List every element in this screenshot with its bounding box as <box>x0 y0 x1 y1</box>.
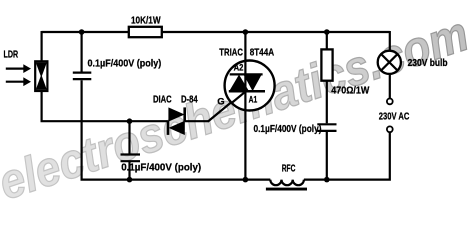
junction dot top rail / C1 <box>79 29 85 35</box>
svg-text:G: G <box>217 96 224 107</box>
svg-text:LDR: LDR <box>4 50 19 61</box>
svg-text:230V AC: 230V AC <box>379 112 410 123</box>
lamp 230V bulb <box>378 51 401 74</box>
wire diac to gate diagonal <box>185 120 209 122</box>
svg-text:0.1µF/400V (poly): 0.1µF/400V (poly) <box>121 163 201 174</box>
terminal lower 230V AC <box>387 126 393 132</box>
wire bulb branch vertical <box>389 31 391 51</box>
svg-text:D-84: D-84 <box>181 95 198 106</box>
capacitor C1 plates 0.1uF/400V <box>73 73 92 80</box>
wire triac A1 lead <box>244 110 246 180</box>
wire bottom rail right of RFC <box>304 179 327 181</box>
wire bulb to terminal <box>389 74 391 99</box>
wire LDR branch left vertical top <box>40 31 42 62</box>
capacitor C3 plates 0.1uF/400V <box>317 124 336 131</box>
svg-text:0.1µF/400V (poly): 0.1µF/400V (poly) <box>254 124 322 135</box>
triac left triangle <box>229 75 249 91</box>
junction dot triac bottom <box>243 177 249 183</box>
triac top bar A2 <box>230 73 263 75</box>
svg-text:8T44A: 8T44A <box>250 48 274 59</box>
resistor R2 470/1W body <box>321 49 332 80</box>
svg-text:230V bulb: 230V bulb <box>408 58 448 69</box>
gate line inside circle <box>231 91 246 103</box>
inductor RFC core bar <box>266 188 307 191</box>
junction dot C3 bottom <box>324 177 330 183</box>
junction dot C2 top <box>127 118 133 124</box>
wire R2 to C3 <box>326 81 328 124</box>
terminal upper 230V AC <box>387 99 393 105</box>
capacitor C2 plates 0.1uF/400V <box>121 155 141 162</box>
svg-text:470Ω/1W: 470Ω/1W <box>331 85 369 96</box>
triac bottom bar A1 <box>229 90 265 93</box>
wire LDR bottom to gate wire <box>42 91 168 121</box>
wire lower terminal to bottom rail <box>326 132 390 179</box>
arrow 2 at LDR <box>6 77 31 86</box>
triac lead inside circle <box>244 60 246 111</box>
resistor R1 10K/1W <box>129 27 162 37</box>
wire R2 top lead <box>326 32 328 49</box>
svg-text:0.1µF/400V (poly): 0.1µF/400V (poly) <box>88 58 162 69</box>
wire C1 upper lead <box>80 32 82 72</box>
LDR body <box>35 61 47 91</box>
wire triac A2 lead <box>244 31 246 61</box>
wire C3 to bottom rail <box>326 132 328 180</box>
inductor RFC coil <box>270 180 304 186</box>
diac D1 D-84 <box>168 107 185 135</box>
wire gate diagonal <box>208 91 246 122</box>
svg-text:DIAC: DIAC <box>153 95 172 106</box>
wire bottom rail left <box>82 179 271 180</box>
svg-text:A2: A2 <box>234 63 244 73</box>
wire C2 upper lead <box>128 121 130 153</box>
svg-text:RFC: RFC <box>282 164 296 175</box>
arrow 1 at LDR <box>6 64 31 73</box>
svg-text:10K/1W: 10K/1W <box>131 16 161 27</box>
wire C2 lower lead <box>128 162 130 180</box>
wire C1 lower lead to bottom rail <box>80 80 82 179</box>
junction dot R2 top <box>324 29 330 35</box>
svg-text:A1: A1 <box>249 95 258 105</box>
junction dot C2 bottom <box>127 177 133 183</box>
svg-text:TRIAC: TRIAC <box>219 48 243 59</box>
triac right triangle <box>244 75 262 92</box>
junction dot triac top <box>243 29 249 35</box>
wire top rail <box>42 31 390 33</box>
triac Q1 circle <box>225 61 275 111</box>
